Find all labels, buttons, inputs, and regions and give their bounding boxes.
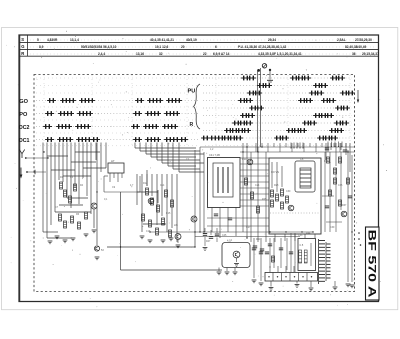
svg-text:R37: R37: [342, 204, 347, 207]
svg-text:C16: C16: [146, 230, 151, 233]
svg-text:C45: C45: [222, 234, 227, 237]
svg-text:40/3,19: 40/3,19: [186, 38, 197, 42]
svg-text:4,830R: 4,830R: [47, 38, 58, 42]
svg-text:13,1,4: 13,1,4: [70, 38, 79, 42]
svg-text:32: 32: [159, 52, 163, 56]
svg-text:BF 570 A: BF 570 A: [366, 230, 378, 298]
svg-text:R41: R41: [256, 238, 261, 241]
svg-text:29,15,34,37: 29,15,34,37: [362, 52, 379, 56]
svg-text:PU: PU: [188, 89, 196, 95]
svg-text:2,4,4: 2,4,4: [98, 52, 105, 56]
svg-text:82,40,38/40,49: 82,40,38/40,49: [345, 45, 366, 49]
svg-text:GO: GO: [19, 99, 28, 105]
svg-text:C39: C39: [330, 226, 335, 229]
svg-text:8,9: 8,9: [39, 45, 44, 49]
svg-text:29,34: 29,34: [268, 38, 276, 42]
svg-text:C43: C43: [298, 234, 303, 237]
svg-text:C35: C35: [338, 184, 343, 187]
svg-text:R33: R33: [324, 160, 329, 163]
svg-text:C24: C24: [255, 184, 260, 187]
svg-text:6: 6: [215, 45, 217, 49]
svg-text:40,4,35 41,41,21: 40,4,35 41,41,21: [150, 38, 174, 42]
svg-text:R28: R28: [274, 184, 279, 187]
svg-text:R: R: [21, 51, 24, 56]
svg-text:OC1: OC1: [19, 138, 30, 144]
svg-text:22: 22: [203, 52, 207, 56]
svg-text:36: 36: [352, 52, 356, 56]
svg-text:4,1P: 4,1P: [227, 240, 232, 243]
svg-text:P.U. 41,38,36 47,24,28,38,40,1: P.U. 41,38,36 47,24,28,38,40,1,42: [238, 45, 287, 49]
svg-text:C41 7,2B: C41 7,2B: [209, 153, 220, 157]
svg-text:5: 5: [37, 38, 39, 42]
svg-text:R25: R25: [262, 198, 267, 201]
svg-text:19,1 12,6: 19,1 12,6: [155, 45, 169, 49]
svg-text:13,16: 13,16: [136, 52, 144, 56]
svg-text:27/28,29,30: 27/28,29,30: [355, 38, 372, 42]
svg-text:C30: C30: [286, 190, 291, 193]
svg-text:2,5AL: 2,5AL: [337, 38, 346, 42]
svg-text:C14: C14: [160, 184, 165, 187]
svg-text:G: G: [21, 44, 24, 49]
svg-text:C.5: C.5: [300, 244, 304, 247]
svg-text:S: S: [21, 37, 24, 42]
svg-text:PO: PO: [19, 112, 28, 118]
svg-text:A7: A7: [111, 159, 115, 163]
svg-text:C27: C27: [246, 226, 251, 229]
svg-text:R: R: [190, 122, 194, 128]
svg-text:4,33,35 3,8F 1,5,1,20,31,34,41: 4,33,35 3,8F 1,5,1,20,31,34,41: [258, 52, 302, 56]
svg-text:20: 20: [181, 45, 185, 49]
svg-text:C5: C5: [300, 157, 304, 161]
svg-text:R12: R12: [143, 182, 148, 185]
svg-text:R15: R15: [166, 212, 171, 215]
svg-text:6,9,9 A7 14: 6,9,9 A7 14: [213, 52, 230, 56]
svg-text:50/51/52/53/54 56,4,5,10: 50/51/52/53/54 56,4,5,10: [81, 45, 117, 49]
svg-text:R21: R21: [242, 158, 247, 161]
svg-text:R47: R47: [206, 240, 211, 243]
svg-text:OC2: OC2: [19, 125, 30, 131]
svg-text:R44: R44: [306, 232, 311, 235]
